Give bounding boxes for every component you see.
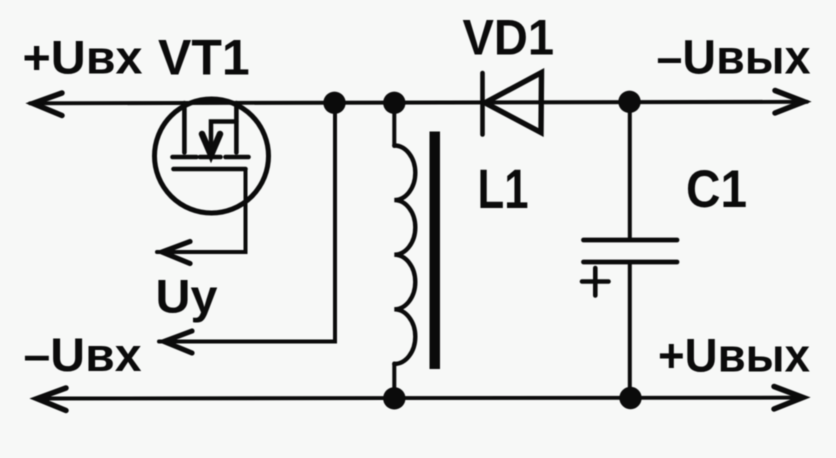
cathode bar bbox=[480, 73, 485, 135]
terminal arrow Uy bbox=[162, 242, 190, 264]
svg-text:L1: L1 bbox=[478, 157, 529, 220]
node junction dot A (top rail / -Uвх branch) bbox=[323, 92, 345, 114]
transistor VT1 (MOSFET, circle envelope) bbox=[155, 99, 269, 213]
substrate arrow stem bbox=[211, 122, 236, 151]
svg-text:–Uвых: –Uвых bbox=[657, 32, 811, 85]
node junction dot E (bottom rail / capacitor) bbox=[619, 387, 641, 409]
svg-text:–Uвх: –Uвх bbox=[24, 328, 142, 381]
diode VD1 bbox=[483, 73, 542, 135]
inductor L1 bbox=[394, 103, 440, 399]
gate electrode line bbox=[174, 167, 246, 172]
node junction dot B (top rail / inductor) bbox=[383, 92, 405, 114]
electrode bar right bbox=[226, 155, 249, 160]
svg-text:+Uвх: +Uвх bbox=[23, 31, 143, 84]
wire: bottom plate to bottom rail bbox=[628, 262, 632, 399]
svg-text:C1: C1 bbox=[686, 160, 747, 219]
wire: top rail to coil bbox=[392, 103, 396, 146]
magnetic core bar bbox=[430, 132, 441, 370]
terminal arrow +Uвх (left, top rail) bbox=[33, 93, 62, 116]
terminal arrow bottom-left bbox=[37, 388, 66, 411]
terminal arrow +Uвых (bottom right) bbox=[774, 387, 803, 410]
bottom plate bbox=[584, 260, 678, 265]
pin: left leg (drain) bbox=[182, 103, 187, 153]
anode triangle bbox=[485, 73, 542, 133]
svg-text:VT1: VT1 bbox=[158, 30, 250, 86]
terminal arrow -Uвх bbox=[164, 331, 192, 353]
wire gate to Uy bbox=[157, 169, 246, 252]
electrode bar left bbox=[173, 155, 197, 160]
wire: top rail to top plate bbox=[628, 102, 632, 240]
terminal arrow -Uвых (right, top rail) bbox=[775, 91, 804, 114]
node junction dot C (top rail / capacitor / output) bbox=[618, 91, 640, 113]
svg-text:VD1: VD1 bbox=[463, 10, 555, 66]
svg-text:+Uвых: +Uвых bbox=[658, 329, 810, 382]
capacitor C1 bbox=[582, 102, 677, 399]
coil winding (4 arcs) bbox=[394, 146, 415, 364]
wire top rail (input/output positive rail) bbox=[30, 102, 807, 104]
wire bottom rail bbox=[36, 396, 804, 401]
top plate bbox=[584, 238, 678, 243]
substrate arrowhead bbox=[202, 134, 220, 155]
electrode bar middle bbox=[200, 155, 221, 160]
wire: coil to bottom rail bbox=[392, 364, 396, 399]
svg-text:Uy: Uy bbox=[156, 270, 218, 323]
pin: right leg (source) bbox=[234, 103, 239, 153]
wire node A down to -Uвх arrow bbox=[159, 103, 335, 342]
node junction dot D (bottom rail / inductor) bbox=[383, 387, 405, 409]
polarity plus sign bbox=[582, 268, 609, 296]
